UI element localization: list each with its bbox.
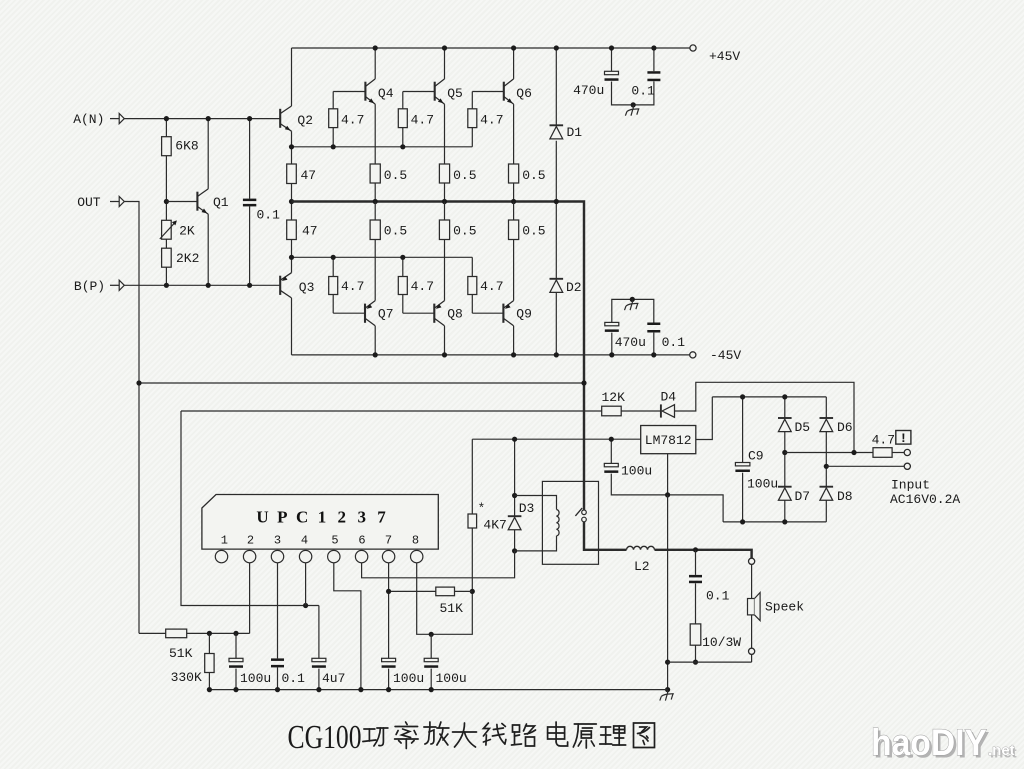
- wire rail to 470u: [611, 48, 613, 71]
- wire feedback riser to pin4 row: [181, 411, 319, 606]
- ground (-45V filter): [625, 299, 639, 310]
- wire to speaker: [751, 564, 753, 598]
- wire pin7 to 51K: [389, 590, 436, 592]
- diode D4: [661, 404, 675, 417]
- title char 大: [453, 723, 477, 747]
- junction 4.7/bias bus: [400, 144, 405, 149]
- wire Q2 emitter down: [291, 131, 293, 147]
- wire 100u bottom: [235, 669, 237, 690]
- wire 2K2 to B(P): [165, 267, 167, 285]
- wire 12K to D4: [621, 410, 661, 412]
- wire relay node to pin6: [362, 551, 515, 578]
- svg-text:D3: D3: [519, 501, 535, 516]
- wire L2 to speaker (thick): [655, 550, 752, 558]
- wire 0.5 to output bus: [374, 183, 376, 202]
- wire 4.7 to Q4 base: [332, 92, 334, 109]
- resistor 0.5 (emitter Q4): [370, 164, 380, 183]
- diode D5: [778, 418, 792, 432]
- svg-text:Speek: Speek: [765, 600, 804, 615]
- wire 4u7 bottom: [318, 669, 320, 690]
- junction cap/B(P): [247, 283, 252, 288]
- svg-text:Q5: Q5: [447, 86, 463, 101]
- svg-text:Q1: Q1: [213, 195, 229, 210]
- junction: [740, 519, 745, 524]
- svg-text:Input: Input: [891, 478, 930, 493]
- junction 4.7/lower bus: [331, 255, 336, 260]
- capacitor 0.1 (pin3): [271, 658, 284, 667]
- wire 4.7 to Q9 base: [471, 295, 473, 314]
- wire relay coil bottom: [515, 536, 557, 551]
- junction Q9 collector rail: [511, 352, 516, 357]
- junction speaker return: [665, 660, 670, 665]
- wire lower bus to 4.7: [402, 257, 404, 276]
- capacitor 100u (pin2): [229, 658, 243, 668]
- junction D5/D7 output: [782, 450, 787, 455]
- junction 4.7/bias bus: [331, 144, 336, 149]
- wire ground vertical: [667, 495, 669, 662]
- wire 470u/0.1 ground link (-45V): [612, 299, 654, 322]
- svg-text:Q7: Q7: [378, 306, 394, 321]
- wire 51K to 4K7: [455, 590, 473, 592]
- junction 0.5/output bus: [373, 199, 378, 204]
- junction 4K7/51K: [470, 589, 475, 594]
- svg-text:+45V: +45V: [709, 49, 740, 64]
- wire pin2 down: [249, 563, 251, 634]
- junction main ground: [665, 687, 670, 692]
- wire 4.7 to Q6 base: [471, 92, 473, 109]
- capacitor 0.1 (zobel): [689, 575, 702, 583]
- junction 100u: [233, 631, 238, 636]
- svg-text:B(P): B(P): [74, 279, 105, 294]
- resistor 2K (variable): [162, 220, 172, 239]
- junction ground bus: [316, 687, 321, 692]
- svg-text:LM7812: LM7812: [645, 433, 692, 448]
- wire A(N) net: [124, 118, 280, 120]
- capacitor C9 100u: [735, 463, 750, 473]
- resistor 0.5 (emitter Q5): [439, 164, 449, 183]
- wire to capacitor 0.1: [249, 119, 251, 199]
- svg-text:haoDIY: haoDIY: [871, 722, 987, 763]
- wire D4 to rectifier output: [675, 382, 855, 452]
- resistor 2K2: [162, 248, 172, 267]
- svg-text:0.5: 0.5: [522, 224, 545, 239]
- svg-text:D6: D6: [837, 420, 853, 435]
- wire 4K7 to pin8 node: [431, 528, 472, 634]
- wire 0.1 to 10/3W: [695, 583, 697, 624]
- transistor Q4: [365, 79, 375, 104]
- junction 2K2/B(P): [164, 283, 169, 288]
- junction cap/A(N): [247, 116, 252, 121]
- wire LM7812 ground pin: [667, 454, 669, 495]
- svg-text:C9: C9: [748, 449, 764, 464]
- wire bridge bottom rail: [723, 521, 826, 523]
- pin 7 circle: [382, 550, 394, 562]
- svg-text:100u: 100u: [747, 476, 778, 491]
- transistor Q3: [280, 273, 291, 298]
- svg-text:Q3: Q3: [299, 280, 315, 295]
- svg-text:4K7: 4K7: [483, 517, 506, 532]
- wire Q4 emitter to 0.5: [374, 104, 376, 164]
- svg-text:4.7: 4.7: [480, 113, 503, 128]
- svg-text:AC16V0.2A: AC16V0.2A: [890, 492, 960, 507]
- junction: [609, 352, 614, 357]
- junction ground bus: [233, 687, 238, 692]
- wire OUT net down to 51K row: [124, 202, 139, 634]
- wire 10/3W to return: [695, 645, 697, 662]
- junction pin4: [303, 603, 308, 608]
- svg-text:51K: 51K: [440, 601, 464, 616]
- svg-text:A(N): A(N): [73, 112, 104, 127]
- warning box !: [896, 431, 911, 445]
- wire B(P) net: [124, 284, 280, 286]
- resistor 47 (upper): [287, 164, 297, 184]
- wire to D6: [825, 397, 827, 418]
- svg-text:330K: 330K: [171, 670, 202, 685]
- relay coil L1: [557, 510, 560, 536]
- wire 100u to bridge negative: [611, 474, 723, 522]
- junction Q6 collector rail: [511, 45, 516, 50]
- svg-text:L2: L2: [634, 559, 650, 574]
- svg-text:0.5: 0.5: [453, 168, 476, 183]
- svg-text:100u: 100u: [240, 671, 271, 686]
- wire lower bus to 4.7: [471, 257, 473, 276]
- svg-text:0.1: 0.1: [631, 84, 655, 99]
- title char 理: [600, 726, 626, 745]
- svg-text:47: 47: [302, 224, 318, 239]
- junction: [609, 45, 614, 50]
- junction: [782, 519, 787, 524]
- svg-text:0.1: 0.1: [706, 589, 730, 604]
- wire to 47 upper: [291, 147, 293, 164]
- svg-text:4u7: 4u7: [322, 671, 345, 686]
- wire -45V rail: [292, 354, 690, 356]
- resistor 4.7 (base Q6): [468, 109, 477, 128]
- svg-text:0.5: 0.5: [522, 168, 545, 183]
- title char 电: [548, 722, 568, 746]
- diode D3: [508, 516, 522, 530]
- svg-text:OUT: OUT: [77, 195, 101, 210]
- svg-text:0.5: 0.5: [384, 168, 407, 183]
- transistor Q8: [434, 301, 444, 326]
- pin 8 circle: [411, 550, 423, 562]
- junction: [554, 45, 559, 50]
- junction 100u/LM input: [609, 437, 614, 442]
- wire OUT to 51K: [139, 632, 166, 634]
- resistor 0.5 (emitter Q9): [509, 220, 519, 240]
- pin 5 circle: [328, 550, 340, 562]
- svg-text:D7: D7: [795, 489, 811, 504]
- wire 4u7 top: [318, 606, 320, 659]
- junction: [651, 45, 656, 50]
- svg-text:4.7: 4.7: [411, 279, 434, 294]
- wire 47 upper to bus: [291, 184, 293, 202]
- capacitor 100u (pin8): [424, 658, 438, 668]
- wire to LM7812 input: [472, 438, 640, 440]
- resistor 0.5 (emitter Q8): [439, 220, 449, 240]
- resistor 4.7 (AC input): [873, 448, 892, 458]
- wire 0.1 to rail (-45V): [653, 333, 655, 355]
- svg-text:470u: 470u: [573, 83, 604, 98]
- title char 原: [573, 724, 596, 748]
- wire lower bias bus: [292, 256, 473, 258]
- wire 0.5 to Q9 emitter: [513, 240, 515, 301]
- junction D4 riser: [851, 450, 856, 455]
- junction: [782, 394, 787, 399]
- wire Q2 collector to +45V rail: [291, 48, 293, 106]
- svg-text:0.5: 0.5: [453, 224, 476, 239]
- wire rail to 0.1: [653, 48, 655, 71]
- wire 4K7 top: [471, 439, 473, 514]
- junction 0.5/output bus: [442, 199, 447, 204]
- terminal -45V: [690, 352, 696, 358]
- terminal AC input 1: [904, 449, 910, 455]
- wire D6 to D8: [825, 432, 827, 487]
- wire 47 lower to lower bias bus: [291, 240, 293, 258]
- junction D6/D8 AC input: [824, 464, 829, 469]
- svg-text:Q2: Q2: [297, 113, 313, 128]
- watermark haoDIY.net: [871, 722, 1017, 766]
- transistor Q6: [504, 79, 514, 104]
- junction ground (-45V): [630, 297, 635, 302]
- wire output bus (thick): [292, 202, 585, 511]
- inductor L2: [627, 546, 655, 549]
- svg-text:0.1: 0.1: [257, 208, 281, 223]
- svg-text:0.1: 0.1: [662, 335, 686, 350]
- resistor 4.7 (base Q8): [398, 277, 407, 295]
- capacitor 100u (regulator input): [604, 463, 618, 473]
- junction 47/output bus: [289, 199, 294, 204]
- diode D2: [550, 279, 564, 293]
- input terminal B(P): [110, 280, 124, 290]
- transistor Q5: [435, 79, 445, 104]
- capacitor 470u (-45V): [605, 322, 619, 332]
- wire A(N) to 6K8: [165, 119, 167, 137]
- resistor 10/3W: [690, 624, 701, 645]
- junction ground: [631, 102, 636, 107]
- wire 2K to 2K2: [165, 239, 167, 248]
- wire base Q8: [403, 312, 435, 314]
- relay box: [542, 481, 598, 564]
- resistor 0.5 (emitter Q6): [509, 164, 519, 183]
- pin 3 circle: [271, 550, 283, 562]
- junction: [740, 394, 745, 399]
- wire to 0.1 zobel: [695, 550, 697, 575]
- wire rectifier to fuse resistor: [785, 452, 873, 454]
- svg-text:4.7: 4.7: [480, 279, 503, 294]
- wire Q3 emitter up: [291, 257, 293, 272]
- wire 330K to ground bus: [208, 673, 210, 690]
- wire to 330K: [208, 633, 210, 653]
- svg-text:Q6: Q6: [516, 86, 532, 101]
- wire Q1 base: [166, 201, 197, 203]
- junction pin7/51K: [386, 589, 391, 594]
- input terminal OUT: [110, 196, 124, 206]
- svg-text:.net: .net: [988, 742, 1015, 759]
- junction Q2 emitter/47: [289, 144, 294, 149]
- wire ground vertical lower: [667, 662, 669, 690]
- svg-text:12K: 12K: [602, 390, 626, 405]
- capacitor 100u (pin7): [382, 658, 396, 668]
- wire output bus to 0.5 lower: [374, 202, 376, 221]
- junction Q7 collector rail: [373, 352, 378, 357]
- wire OUT to output bus junction: [139, 382, 584, 384]
- junction 47/lower bus: [289, 255, 294, 260]
- junction D3/regulator input: [512, 437, 517, 442]
- resistor 4.7 (base Q7): [329, 277, 338, 295]
- junction: [651, 352, 656, 357]
- wire Q6 emitter to 0.5: [513, 104, 515, 164]
- junction Q1 base: [164, 199, 169, 204]
- wire feedback to 12K: [181, 410, 602, 412]
- junction 330K: [207, 631, 212, 636]
- resistor 4K7: [468, 514, 477, 528]
- terminal speaker -: [749, 648, 755, 654]
- junction A(N)/6K8: [164, 116, 169, 121]
- wire Q1 collector up: [207, 119, 209, 189]
- wire Q3 collector to -45V rail: [291, 298, 293, 355]
- wire 0.5 to output bus: [444, 183, 446, 202]
- resistor 0.5 (emitter Q7): [370, 220, 380, 240]
- junction zobel return: [693, 660, 698, 665]
- wire D3 bottom: [514, 530, 516, 551]
- junction zobel: [693, 547, 698, 552]
- junction ground bus: [207, 687, 212, 692]
- wire 4.7 to Q7 base: [332, 295, 334, 314]
- wire Q5 emitter to 0.5: [444, 104, 446, 164]
- capacitor 0.1 (+45V): [647, 71, 660, 81]
- junction Q1 collector/A(N): [206, 116, 211, 121]
- resistor 47 (lower): [287, 220, 297, 240]
- resistor 51K (feedback): [166, 629, 187, 638]
- wire relay switch to speaker line (thick): [584, 522, 627, 550]
- junction Q1 emitter/B(P): [206, 283, 211, 288]
- wire D5 to D7: [784, 432, 786, 487]
- wire speaker terminal to return: [751, 654, 753, 662]
- transistor Q9: [503, 301, 513, 326]
- svg-text:4.7: 4.7: [411, 113, 434, 128]
- wire pin8 to 100u: [417, 563, 432, 635]
- wire 6K8 to 2K: [165, 156, 167, 221]
- wire speaker to terminal: [751, 615, 753, 648]
- svg-text:100u: 100u: [436, 671, 467, 686]
- diode D6: [820, 418, 834, 432]
- wire to AC terminal 2: [826, 465, 904, 467]
- IC UPC1237: [202, 495, 438, 550]
- resistor 4.7 (base Q4): [329, 109, 338, 128]
- title char 放: [424, 722, 449, 745]
- diode D7: [778, 487, 792, 501]
- capacitor 0.1 (-45V): [647, 323, 660, 333]
- wire pin7 down: [388, 563, 390, 659]
- resistor 4.7 (base Q9): [468, 277, 477, 295]
- relay switch contact: [575, 508, 586, 522]
- wire to C9: [742, 397, 744, 463]
- svg-text:4.7: 4.7: [341, 279, 364, 294]
- junction OUT riser: [136, 380, 141, 385]
- diode D8: [820, 487, 834, 501]
- svg-text:100u: 100u: [621, 464, 652, 479]
- resistor 12K: [602, 406, 622, 416]
- svg-text:D2: D2: [566, 280, 582, 295]
- svg-text:2K: 2K: [179, 223, 195, 238]
- wire 100u pin8 bottom: [430, 669, 432, 690]
- wire Q1 emitter down: [207, 214, 209, 285]
- svg-text:Q9: Q9: [516, 306, 532, 321]
- wire to 100u: [610, 439, 612, 463]
- svg-text:51K: 51K: [169, 646, 193, 661]
- wire 0.5 to output bus: [513, 183, 515, 202]
- wire 4.7 to Q8 base: [402, 295, 404, 314]
- junction pin8/100u/4K7: [429, 632, 434, 637]
- svg-text:4.7: 4.7: [341, 113, 364, 128]
- wire 51K to pin2: [187, 632, 250, 634]
- svg-text:!: !: [899, 431, 907, 446]
- pin 4 circle: [299, 550, 311, 562]
- resistor 51K (pin7): [436, 587, 455, 596]
- wire capacitor 0.1 to B(P): [249, 206, 251, 285]
- wire D1 to D2: [555, 141, 557, 279]
- speaker Speek: [748, 593, 761, 621]
- svg-text:2K2: 2K2: [176, 251, 199, 266]
- junction Q4 collector rail: [373, 45, 378, 50]
- title char 率: [395, 722, 419, 749]
- wire D3 top: [514, 439, 516, 516]
- wire Q5 collector to +45V: [444, 48, 446, 79]
- transistor Q7: [365, 301, 375, 326]
- wire Q8 collector to -45V: [444, 326, 446, 355]
- wire 100u pin8 top: [430, 634, 432, 658]
- pin 1 circle: [215, 550, 227, 562]
- junction relay coil bottom: [512, 548, 517, 553]
- wire base Q7: [333, 312, 365, 314]
- junction 4.7/lower bus: [400, 255, 405, 260]
- capacitor 0.1 (input): [243, 199, 256, 207]
- wire D7 to bottom: [784, 500, 786, 522]
- svg-text:D5: D5: [795, 420, 811, 435]
- title char 路: [512, 724, 536, 746]
- junction D1-D2/output bus: [554, 199, 559, 204]
- resistor 4.7 (base Q5): [398, 109, 407, 128]
- wire 100u top: [235, 633, 237, 658]
- wire 470u/0.1 ground link: [612, 81, 654, 105]
- wire bridge top rail: [712, 396, 826, 398]
- svg-text:4.7: 4.7: [872, 433, 895, 448]
- junction 0.5/output bus: [511, 199, 516, 204]
- wire +45V rail: [292, 47, 690, 49]
- wire base Q5: [403, 91, 435, 93]
- wire D2 to -45V rail: [555, 292, 557, 355]
- wire output bus to 0.5 lower: [444, 202, 446, 221]
- wire Q7 collector to -45V: [374, 326, 376, 355]
- svg-text:-45V: -45V: [710, 348, 741, 363]
- wire base Q6: [472, 91, 504, 93]
- wire 4.7 to bias bus: [332, 128, 334, 147]
- wire bus to 47 lower: [291, 202, 293, 221]
- junction LM ground: [665, 492, 670, 497]
- junction relay coil top: [512, 493, 517, 498]
- wire 0.5 to Q8 emitter: [444, 240, 446, 301]
- pin 6 circle: [355, 550, 367, 562]
- wire Q4 collector to +45V: [374, 48, 376, 79]
- wire ground bus: [209, 689, 667, 691]
- wire 100u pin7 bottom: [388, 669, 390, 690]
- junction output bus/OUT wire: [581, 380, 586, 385]
- junction Q5 collector rail: [442, 45, 447, 50]
- wire base Q9: [472, 312, 503, 314]
- svg-text:470u: 470u: [615, 335, 646, 350]
- svg-text:D1: D1: [567, 125, 583, 140]
- wire 4.7 to Q5 base: [402, 92, 404, 109]
